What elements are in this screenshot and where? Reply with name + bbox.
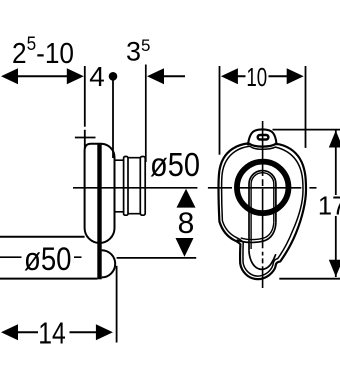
front view body inner outline xyxy=(222,146,303,276)
dimension 2.5-10 left arrowhead xyxy=(1,68,18,84)
dimension 2.5-10 arrow line xyxy=(17,75,69,77)
lower reference line y=257.9 xyxy=(117,257,197,259)
inner capsule inner line xyxy=(251,173,274,249)
inlet pipe top edge xyxy=(0,236,85,238)
inlet pipe bottom edge xyxy=(0,278,97,280)
dimension 17 bottom extension line xyxy=(279,278,340,280)
lobe inner U channel xyxy=(249,251,276,270)
svg-text:35: 35 xyxy=(126,36,151,67)
front horizontal centerline xyxy=(208,187,317,189)
inner capsule outer line xyxy=(249,171,276,251)
dimension 10 left extension line xyxy=(219,66,221,155)
mounting tab hole xyxy=(258,135,269,140)
mounting tab xyxy=(248,129,277,145)
extension line from dot x=113 xyxy=(112,80,114,158)
dimension 8 lower arrowhead xyxy=(176,238,194,257)
svg-text:ø50: ø50 xyxy=(150,146,200,183)
extension line x=116.6 xyxy=(116,266,118,343)
dimension 17 up arrowhead xyxy=(329,131,340,148)
dimension point marker (dot) xyxy=(109,72,118,81)
front view body outer outline xyxy=(219,143,307,279)
dimension 10 line segments xyxy=(237,75,288,77)
side view body (capsule) xyxy=(85,144,115,243)
extension line at body front face x=84.8 (dash-dot) xyxy=(84,66,86,148)
dimension 3.5 tail line xyxy=(163,75,185,77)
dimension 10 right extension line xyxy=(305,66,307,148)
svg-text:10: 10 xyxy=(246,62,267,92)
dimension 14 line segments xyxy=(17,331,97,333)
dimension 2.5-10 label xyxy=(12,34,74,70)
svg-text:8: 8 xyxy=(178,207,195,240)
outlet lobe (side view bulge) xyxy=(102,250,116,277)
front vertical centerline xyxy=(262,121,264,288)
svg-text:17: 17 xyxy=(318,192,340,220)
dimension 10 right arrowhead xyxy=(287,68,304,84)
outlet pipe barrel xyxy=(128,158,140,214)
svg-text:4: 4 xyxy=(89,61,105,92)
svg-text:25-10: 25-10 xyxy=(12,34,74,70)
dimension 8 upper arrowhead xyxy=(177,189,196,208)
dimension 17 down arrowhead xyxy=(329,260,340,277)
outlet pipe end ring B xyxy=(140,157,145,216)
capsule right sweep outer xyxy=(237,222,276,242)
dimension 14 right arrowhead xyxy=(96,324,113,340)
svg-text:14: 14 xyxy=(38,316,66,351)
extension line pipe end x=145.8 xyxy=(145,65,147,163)
dimension 14 left arrowhead xyxy=(1,324,18,340)
outlet pipe ring A xyxy=(124,157,128,216)
outlet pipe neck xyxy=(115,160,124,212)
seal ring (thick) xyxy=(237,162,289,214)
inlet pipe centerline dashes xyxy=(0,256,82,258)
dimension 3.5 arrowhead (outside, pointing left) xyxy=(147,68,164,84)
capsule right sweep inner xyxy=(241,222,274,239)
dimension 17 line xyxy=(335,130,337,277)
svg-text:ø50: ø50 xyxy=(24,241,72,277)
outlet pipe centerline xyxy=(73,187,197,189)
wall flange bar xyxy=(97,143,101,279)
dimension 2.5-10 right arrowhead xyxy=(67,68,84,84)
mounting tab hole tick (side view) xyxy=(75,137,96,139)
dimension 10 left arrowhead xyxy=(221,68,238,84)
dimension 17 top extension line xyxy=(273,129,340,131)
